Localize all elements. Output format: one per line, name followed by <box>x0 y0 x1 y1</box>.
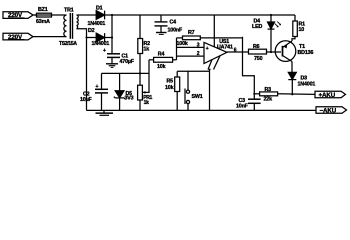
potentiometer PR1 1k <box>138 85 149 110</box>
transistor T1 BD136 <box>275 41 296 73</box>
V- wire to rail <box>209 71 211 110</box>
terminal 220V top <box>3 12 33 19</box>
input bus vertical <box>176 38 178 60</box>
wire secondary top to D1 <box>77 14 97 16</box>
diode D1 1N4001 <box>96 11 104 20</box>
wire bottom terminal to primary <box>33 36 67 38</box>
capacitor C3 10nF <box>248 99 261 110</box>
junction +V top <box>111 14 113 16</box>
terminal -AKU <box>316 107 347 113</box>
svg-text:LED: LED <box>252 24 262 30</box>
svg-text:BZ1: BZ1 <box>38 7 48 13</box>
wire pin3 <box>177 46 205 48</box>
offset null legs <box>208 56 220 72</box>
svg-text:470µF: 470µF <box>120 59 135 65</box>
svg-text:1N4001: 1N4001 <box>92 41 110 47</box>
svg-text:10µF: 10µF <box>80 97 92 103</box>
svg-text:22k: 22k <box>264 96 273 102</box>
svg-text:3V3: 3V3 <box>125 95 134 101</box>
svg-text:+: + <box>96 84 99 90</box>
svg-text:D1: D1 <box>96 6 103 12</box>
svg-text:R7: R7 <box>188 30 195 36</box>
svg-text:+AKU: +AKU <box>319 92 336 99</box>
junction ref at R2 <box>139 72 141 74</box>
svg-text:63mA: 63mA <box>36 19 50 25</box>
LED D4 <box>268 15 282 52</box>
resistor R2 1k <box>138 15 143 85</box>
svg-text:R4: R4 <box>158 52 165 58</box>
fuse BZ1 <box>35 13 54 17</box>
resistor R4 10k <box>149 57 177 62</box>
svg-text:10nF: 10nF <box>236 103 249 109</box>
svg-text:D2: D2 <box>88 28 95 34</box>
svg-text:100nF: 100nF <box>168 27 183 33</box>
svg-text:UA741: UA741 <box>217 44 233 50</box>
svg-text:1N4001: 1N4001 <box>88 21 106 27</box>
capacitor C4 100nF <box>155 15 168 32</box>
svg-text:10: 10 <box>299 27 305 33</box>
svg-text:−AKU: −AKU <box>320 108 337 115</box>
diode D3 1N4001 <box>288 72 296 94</box>
wiper/R4 vertical <box>148 60 151 93</box>
terminal +AKU <box>315 91 346 98</box>
svg-text:750: 750 <box>254 56 263 62</box>
svg-text:10k: 10k <box>157 64 166 70</box>
svg-text:10k: 10k <box>165 85 174 91</box>
wire secondary bottom to D2 with 0V branch <box>77 29 97 38</box>
svg-text:TS2/15A: TS2/15A <box>59 41 77 47</box>
svg-text:R6: R6 <box>253 44 260 50</box>
ground on bottom rail <box>96 110 114 115</box>
resistor R7 100k <box>177 36 243 40</box>
junction D3 AKU wire <box>291 93 293 95</box>
svg-text:BD136: BD136 <box>298 50 314 56</box>
pin 7 V+ wire <box>213 15 215 47</box>
junction secondary 0V <box>86 37 88 39</box>
svg-text:3: 3 <box>197 42 200 48</box>
resistor R6 750 <box>249 49 282 54</box>
wire fuse to primary <box>53 14 67 16</box>
null/switch wire <box>177 70 209 72</box>
svg-text:TR1: TR1 <box>64 8 74 14</box>
svg-text:C4: C4 <box>170 19 177 25</box>
capacitor C2 10uF <box>95 73 108 110</box>
wire pin2 <box>177 55 205 57</box>
+V vertical to C1 <box>111 15 113 53</box>
svg-text:100k: 100k <box>177 41 188 47</box>
resistor R5 10k <box>175 71 180 110</box>
svg-text:6: 6 <box>234 47 237 53</box>
svg-text:SW1: SW1 <box>192 94 203 100</box>
transformer TR1 primary coil <box>64 15 67 37</box>
junction D4 rail <box>270 14 272 16</box>
transformer TR1 core <box>70 13 72 39</box>
ground under C4 <box>156 33 167 35</box>
op-amp US1 UA741 <box>204 42 227 63</box>
junction R3 C3 <box>253 93 255 95</box>
reference wire (zener node) <box>102 72 150 74</box>
diode D2 1N4001 <box>96 33 104 42</box>
junction D2 cathode <box>111 36 113 38</box>
wire top terminal to fuse <box>33 14 37 16</box>
svg-text:2: 2 <box>197 51 200 57</box>
transformer TR1 secondary coil <box>77 15 79 29</box>
zener D5 3V3 <box>114 73 126 110</box>
wire D2 cathode to +V vertical <box>105 37 112 39</box>
resistor R1 10 <box>292 15 297 41</box>
terminal 220V bottom <box>3 33 33 40</box>
svg-text:R5: R5 <box>167 78 174 84</box>
svg-text:+: + <box>103 48 106 54</box>
junction D4 base wire <box>270 51 272 53</box>
ground under C1 <box>106 64 118 68</box>
underline 220V bottom <box>8 38 25 40</box>
svg-text:1k: 1k <box>144 100 149 106</box>
svg-text:R3: R3 <box>265 87 272 93</box>
underline 220V top <box>8 17 25 19</box>
svg-text:1k: 1k <box>144 47 150 53</box>
svg-text:+: + <box>206 46 209 52</box>
capacitor C1 470uF <box>107 54 120 64</box>
wire 0V down to bottom rail <box>86 38 88 111</box>
feedback path R7 right down <box>243 37 255 99</box>
top rail <box>105 14 295 16</box>
output wire pin6 <box>227 51 249 53</box>
resistor R3 22k <box>254 92 315 96</box>
svg-text:1N4001: 1N4001 <box>298 81 316 87</box>
bottom rail <box>87 109 317 111</box>
switch SW1 <box>185 71 190 110</box>
